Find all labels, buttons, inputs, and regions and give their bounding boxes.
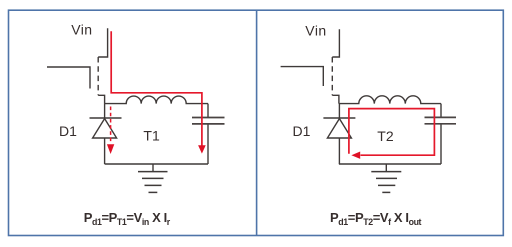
arrow loop current (red, right)	[351, 152, 360, 159]
current path input through switch (red, left)	[111, 31, 202, 145]
arrow output current (red, left)	[198, 145, 206, 153]
svg-text:T2: T2	[377, 128, 394, 144]
transistor Q2 switch channel dashed (right)	[331, 57, 333, 95]
svg-text:D1: D1	[293, 123, 311, 139]
wire below capacitor (right)	[440, 125, 442, 165]
diode D1 (right)	[323, 104, 355, 164]
wire switch to node (right)	[332, 95, 339, 103]
capacitor C1 plates	[192, 118, 225, 124]
wire gate drive (right)	[281, 67, 324, 86]
ground (left)	[138, 164, 168, 192]
svg-text:Vin: Vin	[71, 22, 92, 38]
svg-text:D1: D1	[59, 123, 77, 139]
wire Vin drain (left)	[98, 28, 107, 57]
wire gate drive (left)	[47, 67, 90, 89]
diode D1 (left)	[90, 104, 122, 164]
wire below capacitor (left)	[207, 125, 209, 165]
wire Vin drain (right)	[332, 29, 339, 57]
transistor Q1 switch channel dashed (left)	[97, 57, 99, 95]
inductor T2 winding	[339, 96, 441, 104]
wire right side top (left panel)	[207, 104, 209, 117]
wire switch to node (left)	[98, 95, 104, 103]
ground (right)	[371, 164, 401, 192]
arrow diode current (red, left)	[107, 144, 114, 154]
current path through diode (red dashed, left)	[110, 107, 112, 144]
inductor T1 winding	[105, 96, 208, 104]
svg-text:T1: T1	[143, 127, 160, 143]
current loop freewheeling (red, right)	[349, 109, 435, 156]
wire right side top (right panel)	[440, 104, 442, 117]
wire bottom rail (right)	[339, 163, 441, 165]
wire bottom rail (left)	[105, 163, 208, 165]
capacitor C2 plates	[425, 117, 457, 123]
svg-text:Vin: Vin	[305, 22, 326, 38]
